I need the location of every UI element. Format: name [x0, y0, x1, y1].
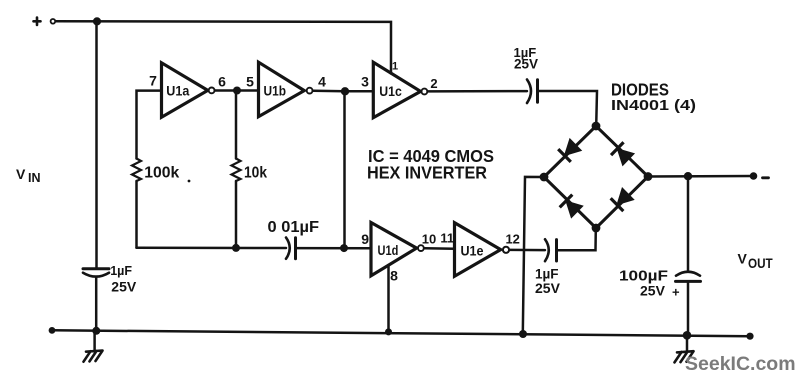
svg-text:10: 10 [422, 232, 436, 247]
svg-text:U1d: U1d [378, 243, 399, 258]
svg-text:U1b: U1b [264, 83, 287, 98]
svg-text:10k: 10k [244, 164, 267, 181]
svg-text:25V: 25V [111, 279, 137, 295]
svg-text:25V: 25V [514, 57, 538, 72]
svg-text:U1c: U1c [379, 84, 402, 99]
svg-text:9: 9 [361, 231, 369, 247]
svg-text:HEX INVERTER: HEX INVERTER [367, 162, 487, 182]
svg-text:2: 2 [430, 76, 437, 91]
svg-text:4: 4 [318, 74, 326, 90]
svg-text:SeekIC.com: SeekIC.com [685, 353, 796, 375]
svg-text:25V: 25V [535, 280, 561, 296]
svg-text:V: V [16, 166, 26, 182]
svg-text:7: 7 [149, 72, 157, 88]
svg-text:12: 12 [505, 232, 519, 247]
svg-text:0 01µF: 0 01µF [268, 219, 320, 236]
svg-text:100k: 100k [144, 164, 179, 181]
svg-text:6: 6 [218, 74, 226, 90]
svg-text:11: 11 [440, 231, 454, 246]
svg-text:3: 3 [361, 73, 369, 89]
svg-text:OUT: OUT [748, 256, 773, 271]
svg-text:U1e: U1e [461, 243, 484, 258]
svg-text:U1a: U1a [166, 83, 189, 98]
svg-text:1: 1 [392, 60, 398, 72]
svg-text:25V: 25V [640, 283, 666, 299]
svg-text:IN: IN [28, 171, 41, 185]
svg-text:+: + [672, 285, 680, 300]
svg-text:IN4001 (4): IN4001 (4) [611, 97, 696, 114]
svg-text:V: V [738, 251, 748, 267]
svg-text:1µF: 1µF [110, 264, 132, 278]
svg-text:8: 8 [390, 268, 398, 284]
svg-text:5: 5 [246, 74, 254, 90]
